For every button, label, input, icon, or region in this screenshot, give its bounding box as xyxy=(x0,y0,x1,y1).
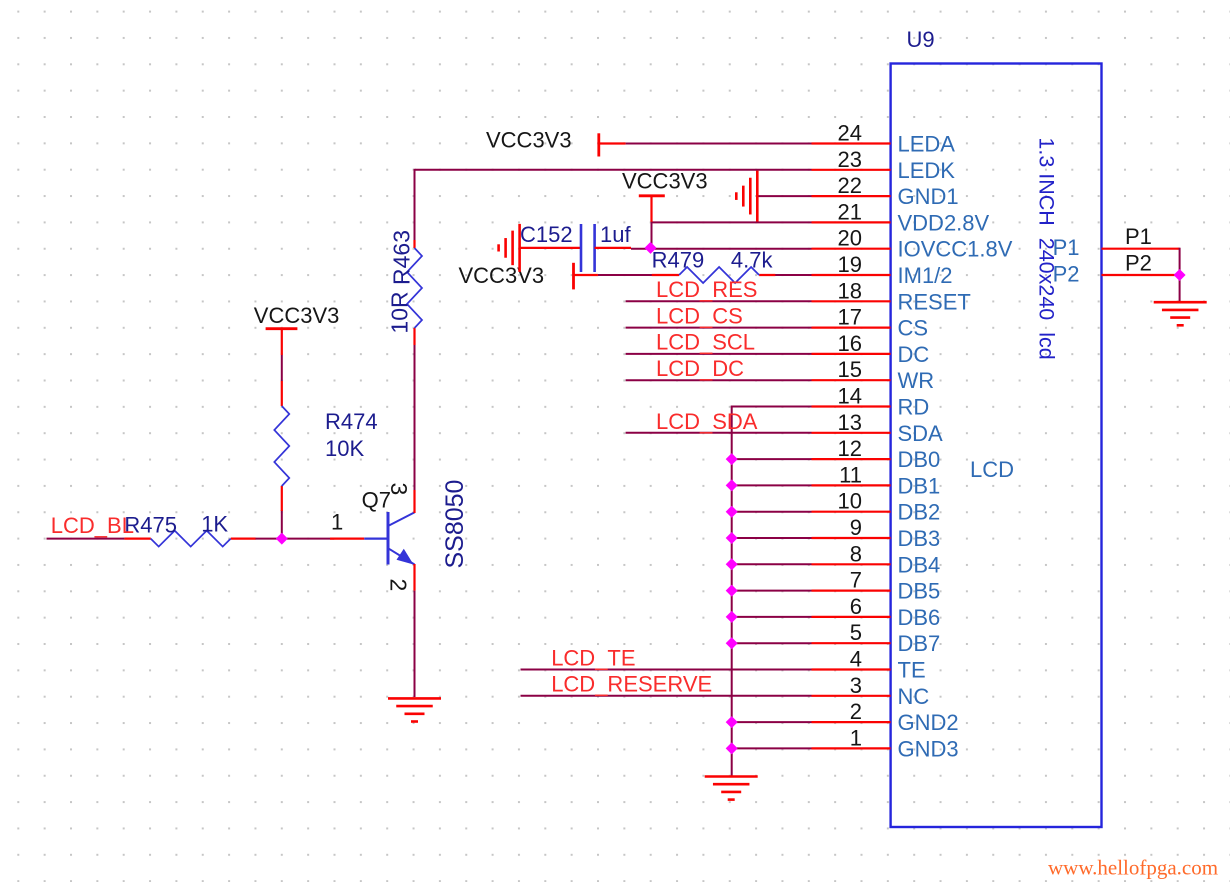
pin 24 (LEDA) of U9 xyxy=(812,121,956,157)
transistor Q7 SS8050 (NPN) xyxy=(330,480,469,591)
power VCC3V3 (to pin 24 LEDA) xyxy=(486,128,626,157)
svg-text:1K: 1K xyxy=(201,512,228,537)
pin 3 (NC) of U9 xyxy=(812,673,930,709)
svg-text:GND3: GND3 xyxy=(898,736,959,761)
wire R474 to base junction xyxy=(281,510,283,539)
svg-text:10R: 10R xyxy=(387,291,413,333)
svg-text:GND1: GND1 xyxy=(898,184,959,209)
svg-text:5: 5 xyxy=(850,620,862,645)
svg-text:DB4: DB4 xyxy=(898,552,941,577)
pin 7 (DB5) of U9 xyxy=(812,568,941,604)
wire bus to pin 1 GND3 xyxy=(732,747,812,749)
wire net LCD_SCL to pin 16 xyxy=(626,353,812,355)
pin 19 (IM1/2) of U9 xyxy=(812,252,953,288)
wire bus to pin 14 RD xyxy=(732,406,812,408)
svg-text:P1: P1 xyxy=(1125,224,1152,249)
svg-text:21: 21 xyxy=(838,199,862,224)
svg-text:DB3: DB3 xyxy=(898,526,941,551)
wire R463 to Q7 collector xyxy=(414,344,416,490)
junction node LCD_BL / R474 / Q7 base xyxy=(276,533,288,545)
ground (P2 net) xyxy=(1154,302,1207,325)
svg-text:P1: P1 xyxy=(1053,235,1080,260)
junction bus at pin 9 xyxy=(726,532,738,544)
pin 13 (SDA) of U9 xyxy=(812,410,944,446)
junction node VCC rail / C152 / pin 20 xyxy=(645,242,657,254)
wire net LCD_DC to pin 15 xyxy=(626,379,812,381)
svg-text:VCC3V3: VCC3V3 xyxy=(486,128,572,153)
svg-text:RD: RD xyxy=(898,395,930,420)
svg-text:DB6: DB6 xyxy=(898,605,941,630)
pin P1 of U9 xyxy=(1053,224,1180,260)
svg-text:LEDK: LEDK xyxy=(898,158,956,183)
junction bus at pin 2 xyxy=(726,716,738,728)
svg-text:23: 23 xyxy=(838,147,862,172)
svg-text:LCD_RESERVE: LCD_RESERVE xyxy=(551,671,712,696)
pin 4 (TE) of U9 xyxy=(812,647,926,683)
svg-text:DB7: DB7 xyxy=(898,631,941,656)
svg-text:DB2: DB2 xyxy=(898,500,941,525)
resistor R463 10R xyxy=(387,230,423,345)
ground (Q7 emitter) xyxy=(388,698,441,721)
junction bus at pin 10 xyxy=(726,506,738,518)
svg-text:14: 14 xyxy=(838,384,862,409)
svg-text:WR: WR xyxy=(898,368,935,393)
svg-text:15: 15 xyxy=(838,357,862,382)
svg-text:10K: 10K xyxy=(325,436,364,461)
svg-text:NC: NC xyxy=(898,684,930,709)
IC U9 body (1.3 INCH 240x240 lcd) xyxy=(891,64,1102,828)
pin 18 (RESET) of U9 xyxy=(812,278,971,314)
svg-text:16: 16 xyxy=(838,331,862,356)
wire bus to pin 8 DB4 xyxy=(732,563,812,565)
svg-text:22: 22 xyxy=(838,173,862,198)
wire net LCD_RES to pin 18 xyxy=(626,300,812,302)
svg-text:VCC3V3: VCC3V3 xyxy=(622,169,708,194)
svg-text:LCD_CS: LCD_CS xyxy=(656,303,743,328)
svg-text:3: 3 xyxy=(386,483,412,496)
svg-text:LCD_SDA: LCD_SDA xyxy=(656,409,758,434)
pin 8 (DB4) of U9 xyxy=(812,541,941,577)
power VCC3V3 (to pin 21 VDD2.8V) xyxy=(622,169,708,222)
pin 20 (IOVCC1.8V) of U9 xyxy=(812,226,1013,262)
svg-text:13: 13 xyxy=(838,410,862,435)
wire bus to pin 6 DB6 xyxy=(732,616,812,618)
svg-text:1: 1 xyxy=(331,510,343,535)
svg-text:CS: CS xyxy=(898,316,929,341)
junction bus at pin 11 xyxy=(726,479,738,491)
resistor R474 10K xyxy=(274,381,377,511)
junction bus at pin 7 xyxy=(726,585,738,597)
wire junction to pin 20 IOVCC1.8V xyxy=(651,248,812,250)
wire VCC3V3 to R479 xyxy=(598,274,652,276)
wire VCC3V3 to pin 21 VDD2.8V xyxy=(652,221,812,223)
pin 9 (DB3) of U9 xyxy=(812,515,941,551)
junction bus at pin 1 xyxy=(726,742,738,754)
pin 17 (CS) of U9 xyxy=(812,305,929,341)
svg-text:4.7k: 4.7k xyxy=(731,248,774,273)
svg-text:8: 8 xyxy=(850,541,862,566)
svg-text:LCD: LCD xyxy=(970,457,1014,482)
svg-text:IM1/2: IM1/2 xyxy=(898,263,953,288)
svg-text:20: 20 xyxy=(838,226,862,251)
svg-text:SDA: SDA xyxy=(898,421,944,446)
wire P1 P2 to ground xyxy=(1179,248,1181,302)
wire ground to pin 22 GND1 xyxy=(757,195,811,197)
pin 14 (RD) of U9 xyxy=(812,384,930,420)
svg-text:GND2: GND2 xyxy=(898,710,959,735)
capacitor C152 1uf xyxy=(520,222,632,272)
pin 10 (DB2) of U9 xyxy=(812,489,941,525)
svg-text:12: 12 xyxy=(838,436,862,461)
svg-text:IOVCC1.8V: IOVCC1.8V xyxy=(898,237,1013,262)
pin 11 (DB1) of U9 xyxy=(812,462,941,498)
svg-text:17: 17 xyxy=(838,305,862,330)
wire node VCC rail vertical to junction xyxy=(651,221,653,248)
wire VCC3V3 to pin 24 LEDA xyxy=(626,143,812,145)
power VCC3V3 (to R479) xyxy=(459,263,598,290)
svg-text:www.hellofpga.com: www.hellofpga.com xyxy=(1048,856,1218,880)
pin 21 (VDD2.8V) of U9 xyxy=(812,199,990,235)
pin 16 (DC) of U9 xyxy=(812,331,930,367)
wire bus to pin 9 DB3 xyxy=(732,537,812,539)
wire net LCD_TE to pin 4 TE xyxy=(521,669,812,671)
svg-text:4: 4 xyxy=(850,647,862,672)
svg-text:RESET: RESET xyxy=(898,289,971,314)
svg-text:P2: P2 xyxy=(1053,262,1080,287)
junction bus at pin 6 xyxy=(726,611,738,623)
svg-text:VDD2.8V: VDD2.8V xyxy=(898,210,990,235)
svg-text:TE: TE xyxy=(898,658,926,683)
wire net LCD_RESERVE to pin 3 NC xyxy=(521,695,812,697)
wire R479 to pin 19 IM1/2 xyxy=(775,274,812,276)
svg-text:VCC3V3: VCC3V3 xyxy=(254,303,340,328)
svg-text:2: 2 xyxy=(850,699,862,724)
wire bus to pin 10 DB2 xyxy=(732,511,812,513)
wire bus to pin 7 DB5 xyxy=(732,590,812,592)
wire net LCD_SDA to pin 13 xyxy=(626,432,812,434)
wire ground bus vertical xyxy=(731,406,733,776)
svg-text:R479: R479 xyxy=(652,248,705,273)
ground (pin 22 GND1) xyxy=(736,171,757,222)
svg-text:7: 7 xyxy=(850,568,862,593)
power VCC3V3 (to R474) xyxy=(254,303,340,355)
svg-text:19: 19 xyxy=(838,252,862,277)
svg-text:1uf: 1uf xyxy=(600,222,631,247)
svg-text:R463: R463 xyxy=(389,230,415,285)
svg-text:18: 18 xyxy=(838,278,862,303)
svg-text:6: 6 xyxy=(850,594,862,619)
svg-text:VCC3V3: VCC3V3 xyxy=(459,263,545,288)
svg-text:10: 10 xyxy=(838,489,862,514)
junction bus at pin 5 xyxy=(726,637,738,649)
svg-text:P2: P2 xyxy=(1125,250,1152,275)
svg-text:24: 24 xyxy=(838,121,862,146)
svg-text:SS8050: SS8050 xyxy=(441,480,469,569)
pin 1 (GND3) of U9 xyxy=(812,725,959,761)
svg-text:LCD_TE: LCD_TE xyxy=(551,646,635,671)
svg-text:LCD_SCL: LCD_SCL xyxy=(656,330,755,355)
svg-text:C152: C152 xyxy=(520,222,573,247)
wire R475 to Q7 base node xyxy=(255,538,334,540)
svg-text:9: 9 xyxy=(850,515,862,540)
svg-text:1: 1 xyxy=(850,725,862,750)
ground (C152) xyxy=(499,224,520,272)
resistor R479 4.7k xyxy=(652,248,776,284)
wire pin 23 LEDK to R463 top xyxy=(415,169,812,241)
svg-text:DB0: DB0 xyxy=(898,447,941,472)
wire bus to pin 2 GND2 xyxy=(732,721,812,723)
resistor R475 1K xyxy=(124,512,255,547)
svg-text:LEDA: LEDA xyxy=(898,132,956,157)
svg-text:LCD_BL: LCD_BL xyxy=(51,513,134,538)
svg-text:LCD_DC: LCD_DC xyxy=(656,356,744,381)
wire bus to pin 5 DB7 xyxy=(732,642,812,644)
wire Q7 emitter to ground xyxy=(414,591,416,697)
svg-text:LCD_RES: LCD_RES xyxy=(656,277,757,302)
svg-text:DC: DC xyxy=(898,342,930,367)
pin 5 (DB7) of U9 xyxy=(812,620,941,656)
ground (data bus) xyxy=(705,777,758,800)
svg-text:U9: U9 xyxy=(907,27,935,52)
svg-text:3: 3 xyxy=(850,673,862,698)
pin 6 (DB6) of U9 xyxy=(812,594,941,630)
pin 15 (WR) of U9 xyxy=(812,357,935,393)
pin 22 (GND1) of U9 xyxy=(812,173,959,209)
wire C152 to junction xyxy=(631,248,651,250)
svg-text:11: 11 xyxy=(839,462,862,487)
svg-text:R474: R474 xyxy=(325,409,378,434)
wire bus to pin 12 DB0 xyxy=(732,458,812,460)
svg-text:2: 2 xyxy=(386,579,412,592)
pin 2 (GND2) of U9 xyxy=(812,699,959,735)
junction node P2 / ground xyxy=(1174,269,1186,281)
svg-text:DB5: DB5 xyxy=(898,579,941,604)
wire bus to pin 11 DB1 xyxy=(732,484,812,486)
wire VCC3V3 to R474 xyxy=(281,355,283,381)
svg-text:DB1: DB1 xyxy=(898,473,941,498)
wire net LCD_BL to R475 xyxy=(47,538,125,540)
pin P2 of U9 xyxy=(1053,250,1180,286)
pin 12 (DB0) of U9 xyxy=(812,436,941,472)
junction bus at pin 8 xyxy=(726,558,738,570)
junction bus at pin 12 xyxy=(726,453,738,465)
wire net LCD_CS to pin 17 xyxy=(626,327,812,329)
pin 23 (LEDK) of U9 xyxy=(812,147,956,183)
